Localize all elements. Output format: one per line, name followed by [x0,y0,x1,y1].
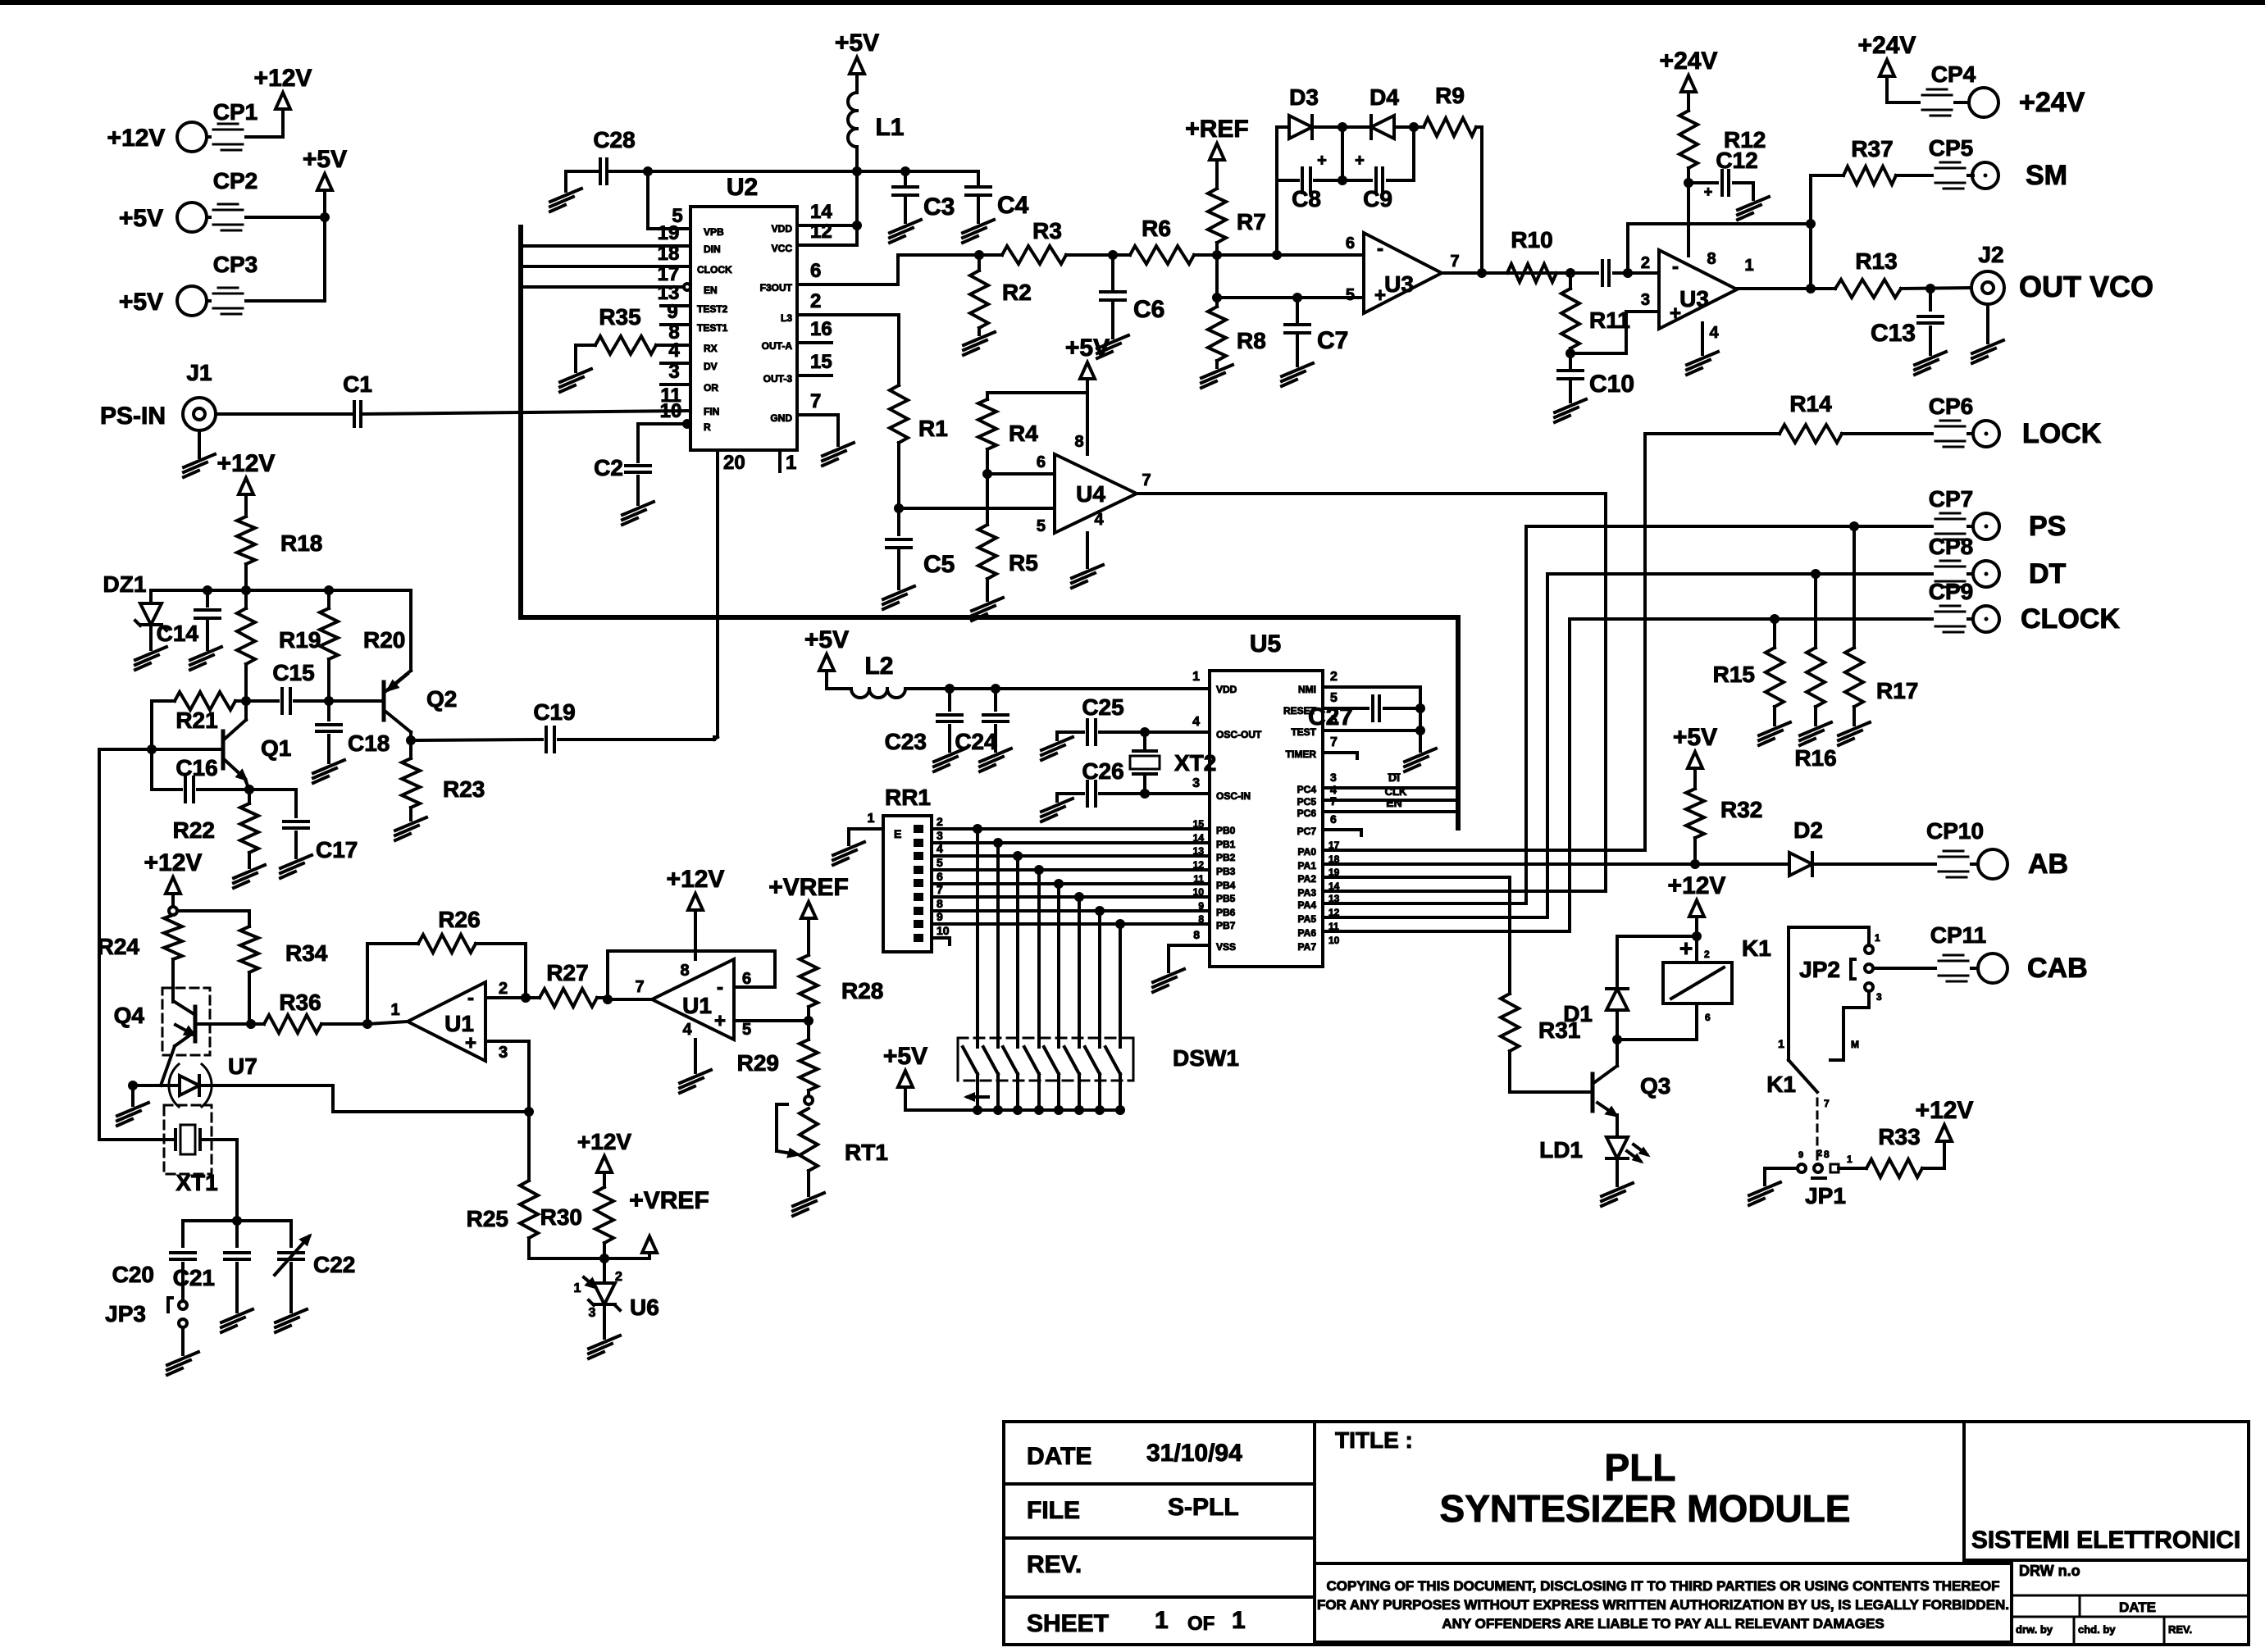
title block right column [1964,1527,2249,1645]
svg-text:1: 1 [1875,932,1880,944]
svg-text:9: 9 [1798,1150,1803,1160]
svg-text:R9: R9 [1435,83,1465,108]
svg-text:2: 2 [499,980,508,998]
svg-text:+: + [714,1010,726,1032]
wire PA2 row to R31 [1323,877,1510,994]
op-amp U3 first [1346,233,1460,313]
capacitor C14 [157,590,221,670]
svg-text:3: 3 [1876,991,1882,1003]
resistor R10 [1507,227,1556,282]
wire U2 pin5 [648,171,724,238]
svg-text:+12V: +12V [144,849,203,876]
svg-text:+: + [1670,303,1681,325]
svg-text:1: 1 [1192,670,1200,684]
svg-text:U4: U4 [1076,481,1105,507]
svg-text:SM: SM [2026,160,2067,191]
resistor R1 [890,315,948,508]
svg-text:C5: C5 [923,551,955,578]
svg-text:PC5: PC5 [1297,796,1317,808]
svg-text:+5V: +5V [835,30,879,57]
wire JP2 frame [1789,927,1869,1060]
wire R25 to R30 [529,1257,604,1260]
svg-text:R: R [704,421,711,433]
pin U2 10 [641,400,711,433]
svg-text:DRW n.o: DRW n.o [2019,1563,2080,1579]
diode D3 [1277,84,1342,139]
wire PB1 row [932,838,1210,848]
svg-text:C3: C3 [923,193,955,221]
svg-text:R29: R29 [737,1050,779,1076]
svg-text:+5V: +5V [119,289,163,316]
capacitor C5 [883,508,955,609]
svg-text:U3: U3 [1384,271,1414,297]
svg-text:R20: R20 [363,627,405,653]
svg-text:R16: R16 [1794,745,1836,771]
svg-text:3: 3 [1192,776,1200,790]
svg-text:9: 9 [937,910,943,923]
svg-text:SYNTESIZER MODULE: SYNTESIZER MODULE [1440,1487,1851,1530]
svg-text:PB3: PB3 [1216,866,1236,877]
svg-text:PA5: PA5 [1298,913,1317,925]
svg-text:CP2: CP2 [213,168,257,193]
svg-text:7: 7 [1450,253,1459,271]
node C27 junctions [1415,687,1425,735]
pin U5 PC4 [1297,771,1454,795]
ground C27 [1405,730,1436,771]
capacitor C1 [343,371,690,426]
svg-text:ANY OFFENDERS ARE LIABLE TO PA: ANY OFFENDERS ARE LIABLE TO PAY ALL RELE… [1442,1616,1884,1632]
svg-text:R25: R25 [467,1206,508,1231]
node R17 junction [1849,521,1859,531]
svg-text:CP11: CP11 [1930,922,1987,948]
svg-text:7: 7 [1330,735,1338,749]
node R2 junction [974,250,984,260]
svg-text:PA7: PA7 [1298,941,1317,953]
wire pin3 to R11 [1570,312,1659,353]
node R36 junction [246,1019,256,1029]
svg-text:5: 5 [1346,286,1355,304]
capacitor C28 [550,127,648,212]
svg-text:FIN: FIN [704,406,719,417]
svg-text:+: + [465,1032,476,1054]
svg-text:R10: R10 [1511,227,1552,253]
svg-text:R30: R30 [540,1204,582,1230]
wire U1b feedback box [608,951,775,999]
svg-text:R19: R19 [279,627,321,653]
svg-text:C8: C8 [1292,186,1321,212]
svg-text:+5V: +5V [119,205,163,232]
svg-text:+12V: +12V [667,866,725,893]
wire C19 to U2 pin20 [714,737,718,740]
capacitor C8 [1277,152,1342,212]
svg-text:PA6: PA6 [1298,927,1317,939]
pin U2 12 VCC [772,221,857,254]
op-amp U1 second [635,959,751,1040]
svg-text:+VREF: +VREF [629,1187,709,1214]
svg-text:8: 8 [680,962,689,980]
capacitor C13 [1871,289,1946,375]
svg-text:U2: U2 [727,174,758,201]
pin U2 11 FIN [660,385,719,417]
svg-text:OUT-3: OUT-3 [763,373,793,385]
power +5V arrow DSW1 [883,1043,927,1110]
wire DSW1 column 3 [1016,856,1019,1038]
power +REF arrow [1185,116,1249,160]
svg-text:+: + [1374,284,1386,307]
svg-text:EN: EN [1386,796,1401,809]
pin U2 16 OUT-A [762,318,832,352]
svg-text:1: 1 [868,812,875,826]
svg-text:OSC-OUT: OSC-OUT [1216,729,1262,740]
node XT2 bottom junction [1140,789,1150,799]
svg-text:4: 4 [682,1021,692,1039]
svg-text:8: 8 [1193,928,1200,941]
power +24V R12 column [1660,48,1718,111]
node C23 junction [945,684,955,694]
resistor R30 [540,1172,613,1258]
svg-text:5: 5 [937,856,943,869]
svg-text:PC4: PC4 [1297,784,1317,795]
power +VREF arrow [604,1187,709,1258]
svg-text:NMI: NMI [1298,684,1316,695]
pin U2 3 OR [661,361,718,394]
svg-text:31/10/94: 31/10/94 [1146,1440,1242,1467]
node L1 rail junction [852,166,862,176]
node Q1 collector junction [241,696,251,706]
svg-text:16: 16 [810,318,832,340]
wire U3b pin2 [1628,271,1659,275]
svg-text:K1: K1 [1742,935,1771,961]
ic U5 box [1210,630,1323,967]
svg-text:CAB: CAB [2027,953,2088,984]
capacitor C18 [313,701,390,783]
svg-text:7: 7 [1824,1098,1830,1109]
svg-text:Q2: Q2 [426,686,457,712]
node Q1 base junction [147,744,157,754]
svg-text:Q4: Q4 [114,1003,145,1028]
svg-text:-: - [1672,256,1679,278]
svg-text:6: 6 [1330,713,1338,727]
title block copying notice [1315,1563,2012,1642]
svg-text:+: + [1679,935,1693,961]
svg-text:-: - [717,976,723,999]
pin U2 15 OUT-3 [763,351,832,385]
svg-text:VPB: VPB [704,226,724,238]
resistor R5 [972,474,1038,621]
pin U2 14 VDD [772,201,857,234]
node U7 left junction [128,1081,138,1090]
wire PB4 row [932,879,1210,889]
wire U2 pin17 EN [521,263,718,296]
svg-text:C10: C10 [1589,371,1634,398]
crystal XT2 [1130,732,1216,794]
node R28 junction [804,1016,813,1026]
svg-text:U7: U7 [228,1054,257,1079]
svg-text:3: 3 [1330,771,1337,784]
svg-text:C14: C14 [157,621,199,646]
svg-text:R11: R11 [1589,307,1630,333]
connector CP5 SM [1929,135,2067,191]
svg-text:drw. by: drw. by [2016,1623,2053,1636]
node rail dots [203,585,334,595]
svg-text:C17: C17 [316,837,358,862]
svg-text:+: + [1355,152,1365,170]
capacitor C19 [411,699,714,752]
dip-switch DSW1 [958,1038,1239,1115]
wire feedback vertical [1806,175,1816,289]
wire U1a pin3 [485,1041,529,1112]
diode D2 [1789,817,1935,876]
node C24 junction [991,684,1000,694]
svg-text:SHEET: SHEET [1027,1610,1109,1637]
transistor Q4 dashed box [114,988,210,1055]
svg-text:5: 5 [742,1021,751,1039]
svg-text:chd. by: chd. by [2078,1623,2116,1636]
diode D1 [1563,989,1628,1040]
svg-text:JP1: JP1 [1805,1183,1846,1208]
svg-text:PB1: PB1 [1216,839,1236,850]
capacitor U3 coupling [1570,261,1628,285]
svg-text:PA4: PA4 [1298,899,1317,911]
svg-text:10: 10 [1328,935,1340,946]
resistor R12 [1679,111,1766,256]
wire DSW1 column 8 [1119,924,1122,1038]
svg-text:6: 6 [810,260,821,282]
svg-text:PS-IN: PS-IN [100,403,166,430]
node D1 bottom junction [1612,1035,1622,1044]
power +12V arrow R18 [217,450,276,494]
svg-text:4: 4 [668,339,680,362]
wire PB3 row [932,865,1210,875]
svg-text:+5V: +5V [804,626,849,653]
wire DSW1 column 7 [1098,911,1101,1038]
svg-text:C21: C21 [173,1265,215,1290]
svg-text:S-PLL: S-PLL [1168,1494,1239,1521]
svg-text:5: 5 [1037,517,1046,535]
svg-text:R18: R18 [280,530,322,556]
wire DSW1 column 1 [976,829,979,1038]
svg-text:C18: C18 [348,730,390,756]
svg-text:7: 7 [635,978,644,996]
transistor Q4 [161,1002,195,1085]
svg-text:U5: U5 [1250,630,1281,658]
resistor R35 [560,304,718,392]
op-amp U4 [1055,433,1151,533]
svg-text:D1: D1 [1563,1001,1593,1026]
switch K1 [1766,1060,1830,1160]
svg-text:OF: OF [1187,1613,1215,1635]
wire shield bus vertical left [518,227,523,617]
pin U2 6 F3OUT [760,255,898,294]
svg-text:R32: R32 [1720,797,1762,822]
node D3-D4 junction [1338,122,1347,132]
resistor R17 [1839,526,1918,745]
node C8-C9 junction [1338,127,1347,185]
svg-text:R1: R1 [918,416,948,441]
svg-text:VDD: VDD [1216,684,1237,695]
wire U3b feedback [1628,224,1811,273]
connector CP2 +5V [119,168,325,232]
resistor R16 [1794,574,1836,771]
resistor R15 [1713,619,1790,745]
svg-text:R4: R4 [1009,421,1038,446]
svg-text:6: 6 [1330,812,1337,826]
svg-text:CLOCK: CLOCK [2021,603,2120,635]
svg-text:+5V: +5V [303,146,347,173]
svg-text:L2: L2 [864,653,893,680]
svg-text:TIMER: TIMER [1286,749,1317,760]
svg-text:R14: R14 [1789,391,1832,416]
svg-text:+12V: +12V [254,65,312,92]
svg-text:DATE: DATE [1027,1443,1091,1470]
power +12V arrow U1b [667,866,725,959]
svg-text:10: 10 [660,400,682,422]
svg-text:CP9: CP9 [1929,579,1973,604]
wire DSW1 column 4 [1037,870,1041,1038]
svg-text:R6: R6 [1142,216,1171,241]
svg-text:8: 8 [1824,1149,1830,1160]
wire R26 feedback vertical [366,944,369,1024]
svg-text:XT1: XT1 [175,1170,217,1195]
capacitor C2 [594,424,654,525]
svg-text:C7: C7 [1317,327,1348,354]
node R7 bottom junction [1212,250,1222,260]
ground U3b pin4 [1687,323,1718,375]
wire C20 C22 rail [183,1219,291,1222]
svg-text:R26: R26 [438,907,480,932]
node R8 top junction [1212,293,1222,303]
resistor R33 [1839,1124,1944,1177]
resistor R3 [979,218,1113,264]
resistor R14 [1645,391,1932,443]
wire PB5 row [932,892,1210,902]
node R15 junction [1770,614,1780,624]
svg-text:+5V: +5V [883,1043,927,1070]
node C13 junction [1925,284,1935,294]
svg-text:RESET: RESET [1283,705,1317,717]
svg-text:1: 1 [1232,1607,1246,1634]
svg-text:-: - [1377,238,1383,260]
svg-text:D3: D3 [1289,84,1319,110]
power +12V arrow R30 [577,1129,631,1172]
node R32 junction [1690,859,1700,869]
svg-text:PC7: PC7 [1297,826,1317,837]
wire Q3 collector [1616,1040,1619,1066]
svg-text:R24: R24 [98,934,140,959]
svg-text:REV.: REV. [2168,1623,2192,1636]
svg-text:R36: R36 [279,990,321,1015]
crystal XT1 dashed box [164,1105,218,1195]
svg-text:COPYING OF THIS DOCUMENT, DISC: COPYING OF THIS DOCUMENT, DISCLOSING IT … [1326,1578,1999,1594]
svg-text:8: 8 [937,897,943,910]
node VDD junction [852,171,862,245]
svg-text:AB: AB [2028,849,2068,880]
resistor R9 [1414,83,1482,136]
svg-text:12: 12 [810,221,832,243]
svg-text:C25: C25 [1082,694,1123,720]
svg-text:C28: C28 [593,127,635,152]
capacitor C26 [1041,758,1145,821]
svg-text:+12V: +12V [577,1129,631,1154]
svg-text:DT: DT [2029,558,2067,589]
wire DSW1 column 5 [1057,884,1060,1038]
pin U5 4 OSC-OUT [1145,715,1262,740]
wire R9 to U3 output [1480,127,1483,273]
svg-text:8: 8 [1074,433,1083,451]
jumper JP2 [1799,932,1882,1003]
svg-text:3: 3 [668,361,679,383]
svg-text:7: 7 [1330,794,1337,808]
wire U4 output [1137,492,1606,495]
svg-text:CP3: CP3 [213,252,257,277]
power +5V arrow at L1 [835,30,879,74]
power +12V arrow at CP1 [254,65,312,109]
svg-text:D4: D4 [1369,84,1399,110]
svg-text:6: 6 [1705,1012,1711,1023]
svg-text:C19: C19 [533,699,575,725]
node R1-C5 junction [894,503,904,513]
svg-text:RX: RX [704,343,718,354]
pin U5 TIMER [1286,735,1357,760]
wire R4 top to +5V [987,391,1087,394]
connector CP9 CLOCK [1929,579,2121,635]
node R11-C10 junction [1565,348,1575,358]
svg-text:6: 6 [1037,453,1046,471]
svg-text:FOR ANY PURPOSES WITHOUT EXPRE: FOR ANY PURPOSES WITHOUT EXPRESS WRITTEN… [1317,1597,2009,1613]
svg-text:PA2: PA2 [1298,873,1317,885]
wire F3OUT row [898,253,979,257]
wire PA5 row to DT [1323,574,1932,917]
svg-text:1: 1 [1155,1607,1169,1634]
wire Q4 base [195,1022,251,1026]
wire U3b output [1737,284,1816,294]
capacitor C24 [955,689,1011,771]
power +VREF arrow R28 [768,874,849,918]
trimmer RT1 [777,1096,888,1216]
wire U2 pin18 CLOCK [521,243,732,275]
resistor R31 [1501,994,1580,1092]
svg-text:1: 1 [1778,1037,1784,1050]
connector CP3 +5V [119,252,325,316]
svg-text:+12V: +12V [107,125,166,152]
svg-text:JP3: JP3 [105,1301,146,1327]
svg-text:1: 1 [786,452,796,474]
jumper JP1 [1749,1149,1853,1208]
svg-text:7: 7 [810,390,821,412]
wire long left vertical [99,749,152,1140]
svg-text:+5V: +5V [1673,724,1717,751]
svg-text:DATE: DATE [2119,1600,2156,1615]
wire D3 anode vertical [1272,127,1282,260]
svg-text:LD1: LD1 [1539,1137,1583,1163]
node R12-C12 junction [1684,178,1693,188]
connector J2 OUT VCO [1971,242,2153,304]
svg-text:FILE: FILE [1027,1497,1080,1524]
wire JP2 to CP11 [1873,967,1935,970]
svg-text:4: 4 [1709,324,1719,342]
svg-text:4: 4 [1192,715,1200,729]
svg-text:LOCK: LOCK [2022,418,2102,449]
label R21 [175,708,217,733]
pin U2 20 [718,450,745,737]
power +5V arrow at CP2 [303,146,347,217]
svg-text:7: 7 [1142,471,1151,489]
capacitor C16 [152,755,249,802]
svg-text:+12V: +12V [1916,1097,1974,1124]
pin U2 1 [780,450,796,474]
wire DSW1 column 2 [996,843,1000,1038]
ground U1b pin4 [680,1040,711,1093]
